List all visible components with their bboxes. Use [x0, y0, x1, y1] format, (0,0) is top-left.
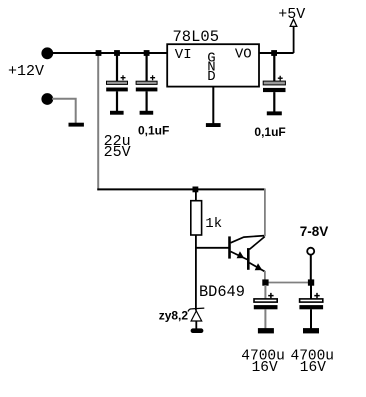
capacitor C1 bottom plate	[106, 88, 128, 92]
svg-text:+12V: +12V	[8, 63, 44, 80]
wire J1 down (gray)	[97, 53, 99, 190]
node J4	[271, 50, 277, 56]
capacitor C1 top plate	[107, 81, 128, 84]
wire +12V rail	[47, 52, 167, 54]
zener D1 triangle	[191, 311, 202, 321]
capacitor C1 22u top lead	[116, 54, 118, 81]
wire horizontal feed	[97, 188, 265, 190]
ground C3	[267, 111, 282, 115]
zener D1 cathode bar	[188, 308, 204, 311]
capacitor C4 plus sign	[268, 293, 273, 298]
node J3	[144, 50, 150, 56]
terminal 7-8V	[307, 248, 314, 255]
transistor Q1 base bar	[228, 236, 231, 258]
capacitor C2 0,1uF top lead	[146, 54, 148, 81]
arrow Q1 emitter	[237, 251, 245, 258]
wire collector riser (gray)	[264, 189, 266, 237]
svg-text:+5V: +5V	[278, 6, 305, 23]
svg-text:16V: 16V	[252, 360, 278, 376]
svg-text:VI: VI	[175, 47, 192, 63]
svg-text:25V: 25V	[104, 144, 131, 161]
capacitor C3 bottom plate	[263, 88, 286, 92]
capacitor C4 bottom plate	[254, 305, 278, 309]
svg-text:BD649: BD649	[199, 283, 245, 301]
capacitor C4 top plate	[254, 299, 277, 302]
ground C5	[303, 328, 319, 333]
ground C2	[140, 111, 154, 115]
capacitor C1 plus sign	[121, 75, 126, 80]
capacitor C2 top plate	[136, 81, 157, 84]
capacitor C4 bottom lead (gray)	[264, 309, 266, 328]
capacitor C3 top plate	[263, 81, 285, 85]
wire resistor to zener	[195, 235, 197, 311]
transistor Q2 base bar	[247, 248, 250, 270]
regulator U1 78L05 box	[167, 44, 259, 86]
node J6	[262, 279, 268, 285]
capacitor C5 plus sign	[314, 293, 319, 298]
wire terminal to J7	[310, 255, 312, 283]
wire base Q1	[195, 247, 228, 249]
capacitor C2 bottom plate	[136, 88, 158, 92]
ground blob zener	[191, 328, 204, 333]
node J5	[193, 187, 199, 193]
node J7	[308, 279, 314, 285]
capacitor C5 bottom plate	[299, 305, 323, 309]
arrow +5V	[290, 19, 297, 26]
capacitor C2 bottom lead	[146, 91, 148, 111]
ground C4	[258, 328, 274, 333]
terminal +12V	[41, 47, 53, 59]
transistor Q2 collector	[249, 237, 264, 250]
capacitor C5 4700u top lead	[310, 285, 312, 299]
wire J5 to resistor	[195, 189, 197, 201]
terminal 2	[41, 93, 53, 105]
wire VO output	[259, 52, 294, 54]
capacitor C3 0,1uF top lead	[273, 54, 275, 81]
wire J6 to J7 (gray)	[265, 282, 311, 284]
svg-text:0,1uF: 0,1uF	[138, 124, 169, 138]
transistor Q1 collector	[231, 236, 265, 243]
svg-text:16V: 16V	[300, 360, 326, 376]
wire terminal2 to ground (gray)	[52, 99, 76, 124]
svg-text:78L05: 78L05	[173, 28, 220, 46]
ground U1	[206, 123, 221, 127]
ground terminal2	[69, 123, 84, 127]
svg-text:0,1uF: 0,1uF	[254, 125, 285, 139]
capacitor C3 plus sign	[278, 76, 283, 81]
node J1	[96, 50, 102, 56]
wire +5V riser	[293, 26, 295, 53]
svg-text:zy8,2: zy8,2	[159, 309, 189, 323]
svg-text:1k: 1k	[205, 216, 222, 232]
capacitor C5 bottom lead	[310, 309, 312, 328]
wire zener to blob	[195, 321, 197, 329]
wire GND pin	[212, 86, 214, 124]
ground C1	[110, 111, 124, 115]
svg-text:D: D	[207, 69, 215, 85]
svg-text:7-8V: 7-8V	[300, 224, 329, 239]
capacitor C5 top plate	[300, 299, 323, 302]
capacitor C2 plus sign	[150, 75, 155, 80]
capacitor C4 4700u top lead (gray)	[264, 285, 266, 299]
arrow Q2 emitter	[255, 263, 263, 270]
capacitor C1 bottom lead	[116, 91, 118, 111]
transistor Q1 emitter	[231, 252, 248, 260]
transistor Q2 emitter	[249, 263, 265, 272]
capacitor C3 bottom lead	[273, 92, 275, 112]
svg-text:VO: VO	[235, 47, 252, 63]
wire emitter drop (gray)	[264, 271, 266, 283]
node J2	[114, 50, 120, 56]
resistor R1 1k	[191, 201, 202, 235]
